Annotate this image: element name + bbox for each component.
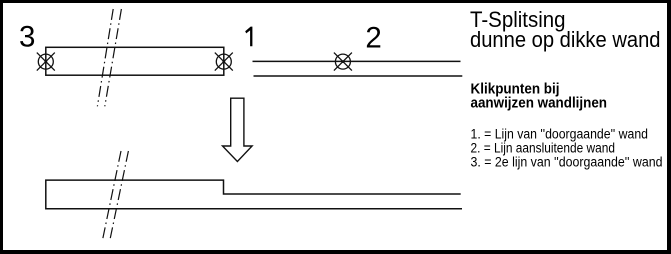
- svg-text:2. = Lijn aansluitende wand: 2. = Lijn aansluitende wand: [471, 140, 616, 155]
- svg-text:2: 2: [365, 22, 381, 55]
- svg-text:3: 3: [19, 21, 35, 54]
- svg-text:3. = 2e lijn van ''doorgaande': 3. = 2e lijn van ''doorgaande'' wand: [471, 154, 663, 169]
- svg-text:aanwijzen wandlijnen: aanwijzen wandlijnen: [471, 94, 608, 111]
- svg-text:dunne op dikke wand: dunne op dikke wand: [470, 27, 661, 52]
- svg-text:1. = Lijn van ''doorgaande'' w: 1. = Lijn van ''doorgaande'' wand: [471, 127, 649, 142]
